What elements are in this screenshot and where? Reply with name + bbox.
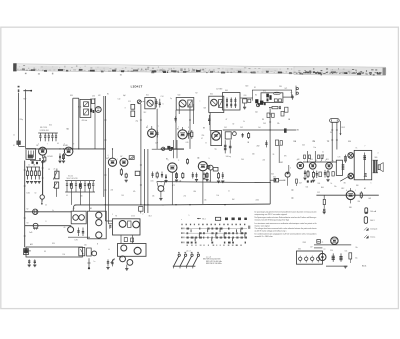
trimmer C14: [156, 99, 158, 108]
tube B3 diode: [95, 107, 101, 113]
transistor TS5: [121, 245, 127, 251]
IF transformer S40 box: [176, 98, 194, 111]
parts AF row d: [182, 172, 184, 174]
svg-text:S30: S30: [70, 95, 73, 97]
wire corner to AF box: [104, 158, 106, 221]
svg-text:260: 260: [358, 201, 361, 203]
svg-text:0.1: 0.1: [163, 191, 165, 193]
svg-text:1k: 1k: [52, 210, 54, 212]
svg-text:50u: 50u: [355, 258, 358, 260]
bias parts TS3: [128, 221, 131, 227]
svg-text:C41: C41: [224, 127, 227, 129]
parts AF row c: [161, 172, 163, 179]
svg-text:1k: 1k: [331, 183, 333, 185]
FM aerial comp: [292, 95, 294, 100]
tube B11 EM80: [326, 163, 333, 170]
svg-text:C42: C42: [240, 127, 243, 129]
svg-text:vermeld. K = 1000 ohm.: vermeld. K = 1000 ohm.: [255, 235, 274, 238]
psu element 4: [317, 257, 320, 260]
output stage box: [118, 244, 147, 257]
capacitor C4: [51, 133, 53, 135]
wire screen feed b: [103, 96, 105, 197]
variable capacitor C13: [137, 100, 141, 104]
FM oscillator cluster: [266, 94, 269, 98]
svg-text:50: 50: [35, 193, 37, 195]
trimmer C15: [159, 99, 161, 108]
audio small cap: [321, 155, 323, 159]
svg-text:x1: x1: [161, 182, 163, 184]
svg-text:4: 4: [108, 155, 109, 157]
trimmer on bus C19: [169, 148, 172, 151]
wire agc drop heavy: [42, 160, 44, 195]
svg-text:1n: 1n: [94, 261, 96, 263]
valve socket box: [88, 211, 107, 239]
smoothing caps small: [323, 208, 325, 210]
wire box drops: [132, 235, 134, 244]
FM aerial terminals: [296, 88, 298, 90]
svg-text:netspanning van 220 V en zonde: netspanning van 220 V en zonder signaal.: [255, 213, 288, 216]
aerial terminal A2 tee: [23, 90, 31, 92]
wire main bus: [75, 204, 161, 206]
loudspeaker: [378, 165, 380, 170]
svg-text:452: 452: [98, 95, 101, 97]
svg-text:36.1: 36.1: [202, 219, 205, 221]
svg-text:B11: B11: [326, 159, 329, 161]
electrolytic C50: [332, 253, 334, 261]
svg-text:1n: 1n: [13, 135, 15, 137]
svg-text:masse, sans signal.: masse, sans signal.: [255, 225, 271, 227]
svg-text:10n: 10n: [314, 147, 317, 149]
pot lower section: [55, 182, 59, 188]
ratio det parts c: [285, 107, 288, 112]
svg-text:massa: massa: [370, 236, 375, 238]
volume pot circle: [212, 132, 221, 141]
strip shading patches: [40, 66, 58, 70]
svg-text:C44: C44: [241, 159, 244, 161]
svg-text:300: 300: [330, 132, 333, 134]
svg-text:C80: C80: [279, 86, 282, 88]
svg-text:S11: S11: [146, 95, 149, 97]
pilot lamp L3: [348, 173, 354, 179]
svg-text:150: 150: [63, 254, 66, 256]
svg-text:8k2: 8k2: [232, 199, 235, 201]
wire rect drop: [350, 200, 352, 204]
wire long run 3: [175, 110, 177, 149]
svg-text:1n: 1n: [228, 191, 230, 193]
wire agc rail: [26, 166, 40, 168]
tube B6 EABC80: [198, 162, 207, 171]
svg-text:220p: 220p: [20, 119, 24, 121]
pointer assembly: [92, 251, 97, 256]
wire long run 2: [156, 109, 158, 149]
svg-text:220: 220: [84, 244, 87, 246]
audio small cap: [304, 155, 306, 159]
transistor TS2: [158, 186, 164, 192]
transistor TS6: [134, 247, 141, 254]
svg-text:C61: C61: [306, 187, 309, 189]
tube B6a small triode: [208, 165, 213, 170]
svg-text:R2: R2: [196, 93, 198, 95]
resistor R12 vertical: [203, 173, 205, 175]
B9 cathode parts: [304, 170, 306, 177]
capacitor C30: [92, 99, 95, 104]
table row 1: [181, 228, 243, 230]
svg-text:OC72: OC72: [119, 257, 123, 259]
svg-text:0.05: 0.05: [151, 181, 154, 183]
socket pin 1: [96, 212, 102, 218]
AF driver box: [113, 219, 141, 235]
svg-text:U1: U1: [254, 87, 256, 89]
volume control box: [211, 131, 222, 146]
svg-text:GR2: GR2: [280, 162, 283, 164]
tube B7 preamp: [120, 158, 128, 166]
bias parts output: [124, 238, 127, 242]
S60 winding 2: [230, 98, 232, 109]
strip word blocks: [22, 68, 381, 75]
table mark 3: [238, 218, 241, 221]
svg-text:2n2: 2n2: [184, 196, 187, 198]
svg-text:4.8: 4.8: [97, 110, 99, 112]
audio coupling caps row: [303, 161, 337, 163]
wire corner 2: [107, 168, 109, 224]
svg-text:SK3 FM 87-100 MHz: SK3 FM 87-100 MHz: [206, 263, 222, 265]
marks rail right: [307, 180, 309, 182]
part right rail: [296, 179, 298, 183]
svg-text:R1: R1: [107, 94, 109, 96]
svg-text:S71: S71: [285, 88, 288, 90]
svg-text:5p: 5p: [170, 98, 172, 100]
psu top rail: [314, 244, 351, 246]
svg-text:1k: 1k: [28, 165, 30, 167]
smoothing resistor: [323, 195, 325, 199]
strip right grey block: [294, 66, 386, 75]
wire grid bus: [27, 148, 106, 150]
audio small cap: [309, 155, 311, 159]
mains switch circle: [319, 253, 326, 260]
FM coil S70: [273, 92, 280, 95]
below strip marks: [25, 73, 122, 76]
audio small cap: [318, 155, 320, 159]
trimmer on bus C18: [162, 147, 165, 150]
svg-text:25: 25: [54, 169, 56, 171]
svg-text:B101: B101: [362, 265, 366, 267]
capacitor C10: [84, 181, 86, 184]
svg-text:C51: C51: [345, 250, 348, 252]
svg-text:B: B: [97, 244, 98, 246]
switch SK2: [180, 256, 185, 266]
svg-text:8 2 x 40: 8 2 x 40: [68, 175, 73, 177]
svg-text:C30: C30: [92, 96, 95, 98]
wire tick marks: [24, 169, 26, 171]
cap group right det: [265, 140, 267, 147]
wire pot drop: [56, 188, 58, 197]
wire drop 1: [144, 149, 146, 213]
svg-text:0.1: 0.1: [57, 143, 59, 145]
svg-text:220k: 220k: [256, 200, 260, 202]
transistor TS1: [40, 195, 44, 199]
svg-text:S60: S60: [225, 90, 228, 92]
wire filter rail: [38, 132, 58, 134]
B6 bias parts: [196, 173, 198, 179]
wire ts1 tail: [41, 199, 43, 203]
svg-text:6k8: 6k8: [369, 198, 372, 200]
table footer specks: [187, 245, 242, 246]
svg-text:180: 180: [318, 183, 321, 185]
svg-text:S10: S10: [49, 125, 52, 127]
tube B4b under S11: [148, 129, 156, 137]
svg-text:PU: PU: [284, 180, 286, 182]
tube B2 oscillator section: [64, 147, 73, 156]
det part a: [242, 133, 244, 138]
wire IF primary pair: [72, 98, 74, 149]
svg-text:B20: B20: [246, 86, 249, 88]
svg-text:R40: R40: [321, 187, 324, 189]
svg-text:5p6: 5p6: [255, 112, 258, 114]
mixer lower parts: [32, 161, 34, 164]
capacitor C9: [80, 181, 82, 184]
oscillator cathode parts: [59, 153, 61, 160]
svg-text:S2: S2: [27, 209, 29, 211]
capacitor C2: [44, 133, 46, 135]
oscillator coil S11 box: [145, 98, 155, 109]
fold mark: [248, 226, 250, 229]
svg-text:C43: C43: [263, 123, 266, 125]
wire audio drop 1: [307, 151, 309, 162]
svg-text:B3: B3: [90, 208, 92, 210]
svg-text:25k: 25k: [152, 196, 155, 198]
legend capsule 1: [365, 208, 368, 214]
junction dots grid bus: [59, 148, 60, 149]
resistor R4: [38, 167, 40, 171]
IF transformer S30 box: [80, 99, 91, 117]
output inner cap: [363, 155, 366, 157]
table row 3: [181, 237, 247, 239]
switch SK3: [186, 256, 191, 266]
bus corner left: [73, 205, 76, 211]
transistor TS7: [120, 256, 126, 262]
wire ifc run b: [176, 140, 178, 158]
ratio det parts a: [267, 113, 270, 118]
svg-text:S80: S80: [375, 157, 378, 159]
dial lamp box: [26, 247, 82, 257]
ratio det parts b: [281, 111, 284, 116]
potentiometer R5: [55, 171, 59, 179]
resistor R3: [35, 167, 37, 171]
junction dots main bus: [105, 204, 106, 205]
FM mixer blobs: [255, 99, 258, 103]
trimmer S50b: [219, 100, 223, 108]
legend arrow 1: [364, 227, 368, 230]
svg-text:1k: 1k: [243, 121, 245, 123]
svg-text:C40: C40: [186, 142, 189, 144]
svg-text:S50: S50: [210, 94, 213, 96]
svg-text:15k: 15k: [204, 200, 207, 202]
svg-text:B12: B12: [342, 188, 345, 190]
lamp L1: [33, 209, 38, 214]
de-emphasis resistor: [272, 107, 278, 109]
tube B5 EF89 second: [168, 163, 177, 172]
pickup circle: [285, 172, 290, 177]
tube B8: [68, 227, 74, 233]
svg-text:36.3: 36.3: [149, 216, 152, 218]
wire af bottom rail: [157, 182, 270, 183]
wire agc bus 2: [25, 225, 71, 227]
switch SK1: [174, 256, 179, 266]
wire ifc run a: [172, 140, 174, 158]
output transformer T1: [373, 160, 375, 173]
input electrolytics: [107, 259, 109, 266]
wire fm lead arrow: [340, 121, 342, 135]
svg-text:log: log: [215, 149, 217, 151]
ground output: [126, 265, 128, 269]
svg-text:B2: B2: [73, 208, 75, 210]
relay box: [274, 178, 279, 182]
svg-text:S20: S20: [52, 243, 55, 245]
strip left end block: [13, 63, 16, 71]
svg-text:C60: C60: [244, 95, 247, 97]
screen resistor R10: [187, 158, 189, 159]
svg-text:250: 250: [202, 135, 205, 137]
FM unit boundary: [252, 90, 291, 101]
mains transformer T2: [331, 237, 338, 244]
wire stub S40a: [178, 104, 180, 114]
coupling box C21: [213, 167, 218, 171]
switch bank base: [173, 265, 196, 267]
svg-text:S40: S40: [178, 95, 181, 97]
capacitor C22: [78, 228, 80, 237]
svg-text:L3D41T: L3D41T: [131, 85, 143, 89]
det small circle: [233, 132, 237, 136]
capacitor C20: [135, 171, 140, 175]
wire if right leg: [94, 98, 96, 149]
IF coil S40 core: [179, 100, 186, 107]
svg-text:36.2: 36.2: [273, 176, 276, 178]
svg-text:40: 40: [64, 227, 66, 229]
svg-text:5: 5: [189, 215, 190, 217]
svg-text:39k: 39k: [277, 123, 280, 125]
FM trimmer pair: [274, 99, 277, 102]
capacitor C12: [92, 181, 94, 184]
psu element 3: [311, 257, 314, 260]
wire drop 2: [147, 149, 149, 213]
table symbol box: [215, 217, 220, 220]
wire long run 1: [140, 104, 142, 205]
bus dark cluster: [161, 148, 185, 150]
psu bottom rail: [326, 265, 348, 267]
wire B5 anode drop: [171, 172, 173, 204]
wire B6 anode drop: [202, 171, 204, 204]
parts AF row b: [156, 172, 158, 174]
svg-text:C9: C9: [48, 169, 50, 171]
svg-text:FM 3: FM 3: [342, 127, 346, 129]
transistor TS3: [119, 221, 126, 228]
cluster dark marks: [70, 183, 72, 186]
wire left rail: [24, 161, 26, 248]
capacitor C8: [75, 181, 77, 184]
parts AF row e: [192, 172, 194, 179]
svg-text:at 220 V mains voltage and wit: at 220 V mains voltage and without any s: [255, 229, 287, 232]
svg-text:2-18 56 40 8: 2-18 56 40 8: [40, 130, 49, 132]
svg-text:220V: 220V: [303, 242, 307, 244]
svg-text:ECH81: ECH81: [48, 156, 53, 158]
svg-text:C50: C50: [330, 250, 333, 252]
svg-text:100k: 100k: [27, 193, 31, 195]
tuning gang box: [26, 149, 36, 160]
svg-text:10.7 MHz: 10.7 MHz: [216, 89, 223, 91]
table row 2: [181, 232, 246, 234]
svg-text:1n5: 1n5: [258, 127, 261, 129]
psu ground: [344, 265, 347, 267]
FM IF box S60: [223, 93, 241, 111]
capacitor C23: [82, 228, 84, 237]
wire dipole feeder 1: [331, 122, 333, 161]
svg-text:B5: B5: [177, 129, 179, 131]
oscillator coil S11 core: [147, 100, 153, 106]
cathode network B1: [42, 155, 44, 158]
svg-text:4.7: 4.7: [201, 138, 203, 140]
wire aerial down-lead: [18, 93, 20, 141]
svg-text:T1: T1: [356, 148, 358, 150]
wire stub S40b: [193, 104, 195, 124]
arrow symbol vol: [111, 259, 115, 263]
note symbol mark: [317, 240, 321, 244]
svg-text:800: 800: [356, 185, 359, 187]
fm input extra parts: [248, 99, 251, 102]
grid stopper curve: [321, 154, 324, 161]
resistor R11b: [120, 168, 122, 170]
wire aerial second lead: [25, 92, 27, 149]
svg-text:SK5: SK5: [298, 249, 301, 251]
svg-text:8.5k: 8.5k: [78, 107, 81, 109]
B4b anode part: [156, 130, 158, 137]
table digits row: [181, 224, 245, 226]
AF takeoff parts: [207, 165, 210, 168]
audio mid parts: [319, 172, 322, 177]
svg-text:6k8: 6k8: [204, 108, 207, 110]
svg-text:5n: 5n: [322, 152, 324, 154]
svg-text:5k6: 5k6: [252, 154, 255, 156]
svg-text:50 4k7 .05 1k 220: 50 4k7 .05 1k 220: [67, 178, 78, 180]
ferrite bead Z1: [129, 156, 134, 160]
input parts AF box: [109, 225, 111, 229]
capacitor C1: [39, 133, 41, 135]
svg-text:68k: 68k: [194, 191, 197, 193]
wire B6a drop: [210, 170, 212, 182]
wire loop right side: [269, 183, 271, 205]
S60 winding 3: [234, 98, 236, 109]
wire FM out: [283, 96, 292, 98]
svg-text:meetpunt: meetpunt: [370, 228, 378, 231]
switch contact b: [79, 215, 85, 221]
B5b anode parts: [188, 131, 190, 139]
wire to tuning gang: [19, 145, 25, 147]
svg-text:aa: aa: [291, 92, 293, 94]
table mark 2: [232, 218, 235, 221]
svg-text:messen, bei 220 V Netzspannung: messen, bei 220 V Netzspannung ohne Sign: [255, 218, 290, 221]
wire bus segment mid: [152, 148, 182, 150]
svg-text:0.1: 0.1: [66, 195, 68, 197]
svg-text:25: 25: [45, 205, 47, 207]
svg-text:6V: 6V: [44, 251, 46, 253]
FM unit inner box: [261, 93, 283, 103]
band switch box: [71, 211, 86, 224]
resistor R2: [31, 167, 33, 171]
electrolytic C51: [340, 253, 342, 261]
svg-text:8: 8: [125, 107, 126, 109]
tube B1 triode-hexode: [39, 147, 47, 155]
strip component specks: [17, 65, 382, 76]
psu box: [297, 251, 323, 264]
